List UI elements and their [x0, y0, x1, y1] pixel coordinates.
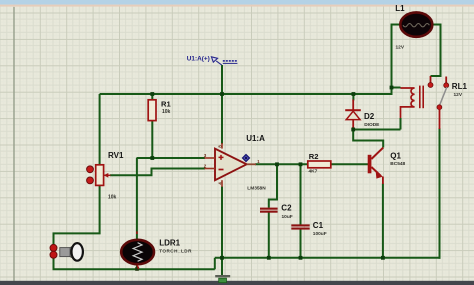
resistor R2 — [308, 152, 331, 174]
NC contact — [430, 76, 432, 84]
svg-text:U1:A(+): U1:A(+) — [187, 56, 210, 63]
svg-text:RL1: RL1 — [452, 82, 468, 91]
wire D2 anode node — [353, 127, 383, 148]
svg-text:4K7: 4K7 — [309, 168, 318, 174]
wire Q1 emitter to 0V rail — [382, 184, 384, 258]
svg-text:R2: R2 — [309, 152, 319, 161]
junction node on 0V rail at Q1 emitter — [381, 256, 385, 260]
svg-text:12V: 12V — [454, 92, 463, 98]
svg-text:Q1: Q1 — [390, 152, 401, 161]
svg-text:4: 4 — [218, 182, 223, 185]
voltage probe U1:A(+) — [187, 56, 238, 66]
wire R1 top link — [151, 94, 153, 100]
svg-text:100uF: 100uF — [313, 231, 327, 237]
svg-text:BC548: BC548 — [390, 161, 405, 167]
junction node on 0V rail at ground — [220, 256, 224, 260]
wire LDR bottom link — [136, 263, 138, 269]
lamp L1 — [395, 4, 432, 51]
wire R1 bottom to pin3 row — [151, 121, 153, 159]
wire RV1 bottom to torch — [54, 185, 100, 245]
coil — [401, 88, 415, 118]
svg-text:10uF: 10uF — [282, 214, 293, 220]
svg-text:D2: D2 — [364, 112, 375, 121]
wire op-amp pin3 row — [137, 157, 206, 159]
junction node on +12V rail at probe column — [220, 92, 224, 96]
wire C1 bottom link — [300, 230, 302, 258]
wire junction to relay coil top — [392, 87, 401, 89]
core bars — [419, 86, 421, 109]
junction node on 0V rail at C1 — [299, 256, 303, 260]
wire left column to LDR — [136, 158, 138, 240]
wire probe / op-amp pin8 drop — [221, 65, 223, 144]
capacitor C1 — [291, 221, 326, 237]
capacitor C2 — [260, 204, 293, 220]
junction node on 0V rail at C2 — [267, 256, 271, 260]
wire C2 bottom link — [268, 212, 270, 257]
wire op-amp pin2 row — [110, 169, 205, 176]
diode D2 — [345, 100, 380, 129]
svg-text:LM358N: LM358N — [247, 186, 266, 192]
wire D2 anode to relay coil bottom — [353, 129, 400, 131]
ground symbol — [215, 275, 230, 283]
wire C2 top link — [269, 164, 277, 208]
wire RV1 top feed — [99, 94, 101, 165]
junction node on output row at C1 — [299, 162, 303, 166]
wire +12V top rail — [100, 88, 392, 95]
wire 0V rail right section — [215, 257, 441, 259]
top window strip — [0, 0, 474, 5]
junction node on pin3 row at R1 — [150, 156, 154, 160]
svg-text:TORCH_LDR: TORCH_LDR — [159, 249, 192, 254]
wire relay pole riser — [439, 128, 441, 259]
wire C1 top link — [300, 164, 302, 224]
junction node on output row at C2 — [275, 162, 279, 166]
svg-text:U1:A: U1:A — [246, 134, 265, 143]
bottom window strip — [0, 281, 474, 285]
svg-text:RV1: RV1 — [108, 151, 124, 160]
svg-text:8: 8 — [218, 145, 223, 148]
svg-text:C2: C2 — [281, 204, 292, 213]
svg-text:10k: 10k — [108, 194, 117, 200]
output probe marker — [242, 154, 249, 161]
potentiometer RV1 — [87, 151, 124, 200]
transistor Q1 — [368, 148, 406, 184]
junction node on +12V rail at D2 — [352, 92, 356, 96]
sheet border line — [13, 7, 14, 281]
junction node on +12V rail at R1 — [150, 92, 154, 96]
junction node at lamp / relay coil corner — [390, 86, 394, 90]
wire 0V rail left section — [53, 268, 215, 270]
wire D2 cathode link — [352, 94, 354, 101]
wire lamp L1 left lead — [392, 25, 401, 88]
pole — [437, 105, 442, 110]
junction node LDR bottom — [135, 267, 139, 271]
LDR LDR1 — [121, 231, 192, 268]
NO contact — [445, 77, 447, 84]
wire op-amp pin4 to ground — [221, 187, 223, 277]
svg-text:C1: C1 — [313, 221, 324, 230]
resistor R1 — [148, 100, 171, 121]
wire op-amp output row — [255, 163, 308, 165]
svg-text:10k: 10k — [162, 109, 171, 115]
wire relay coil bottom drop — [400, 118, 402, 130]
svg-text:12V: 12V — [396, 45, 405, 51]
op-amp U1:A — [204, 134, 266, 192]
wire torch bottom to 0V rail — [53, 258, 55, 270]
svg-text:R1: R1 — [161, 100, 171, 109]
movable arm — [440, 87, 447, 105]
svg-text:LDR1: LDR1 — [159, 239, 180, 248]
svg-text:2: 2 — [204, 164, 207, 169]
svg-text:3: 3 — [204, 153, 207, 158]
svg-text:DIODE: DIODE — [364, 122, 380, 128]
svg-text:L1: L1 — [395, 4, 405, 13]
junction node at D2 anode — [351, 128, 355, 132]
wire 0V rail step — [214, 258, 216, 270]
wire R2 to Q1 base — [331, 163, 368, 165]
relay RL1 — [401, 76, 468, 129]
torch battery symbol — [50, 243, 83, 261]
wire lamp L1 right lead to relay contact — [431, 25, 441, 77]
